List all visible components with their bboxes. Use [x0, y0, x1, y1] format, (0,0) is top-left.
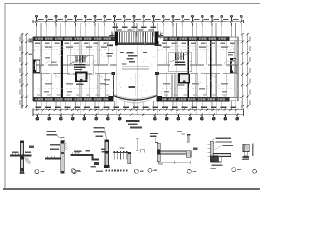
hall steps center: [122, 67, 149, 70]
bottom dimension line 2 ticks: [36, 113, 238, 115]
south exterior wall west wing with windows: [33, 97, 114, 101]
colonnade east junction label: [155, 44, 162, 46]
detail 6 text below: [211, 165, 222, 166]
west elevator shaft: [76, 73, 86, 82]
lobby northwest pier: [112, 72, 116, 75]
north exterior wall west wing with windows: [33, 37, 117, 41]
top dimension end brackets: [32, 20, 34, 23]
west stairwell: [68, 55, 94, 74]
bottom dimension line 1: [33, 109, 244, 111]
extension lines bottom: [37, 101, 242, 110]
detail 5 dim text: [159, 163, 163, 164]
west dimension texts: [19, 37, 20, 105]
detail 4 handrail text: [120, 147, 125, 148]
west niche: [34, 60, 41, 72]
detail 3 gutter step: [92, 154, 94, 161]
detail 7 label circle: [253, 169, 257, 173]
bottom axis bubbles row: [36, 115, 239, 120]
detail 4 right post: [128, 152, 131, 163]
window sill line below north wall: [33, 45, 113, 47]
detail 2 dim text: [75, 151, 81, 152]
room inner dashed lines north: [33, 49, 238, 51]
top dimension axis bubbles row: [36, 15, 243, 21]
detail 6 leader texts: [215, 138, 233, 146]
north wall east end light bay: [230, 36, 239, 38]
detail 4 label circle: [134, 169, 138, 173]
detail 2 labels: [50, 144, 60, 150]
detail 2 base: [61, 171, 65, 174]
detail 5 long slab: [160, 151, 190, 154]
page frame left border: [4, 3, 6, 189]
detail 6 label circle: [232, 168, 236, 172]
small room texts flank lobby: [104, 79, 110, 85]
east gable wall: [237, 37, 239, 101]
page frame bottom border: [3, 188, 260, 190]
detail 5 second label circle: [187, 169, 191, 173]
partition walls south rooms: [40, 73, 236, 97]
west niche dimension text: [29, 54, 34, 55]
detail 1 labels: [12, 146, 34, 153]
detail 2 parapet wall: [61, 141, 64, 171]
east stair flight treads: [171, 75, 174, 99]
colonnade west junction cross mark: [109, 35, 114, 37]
colonnade west junction label: [107, 44, 113, 46]
main cross wall at axis 14: [187, 40, 189, 97]
secondary partition verticals: [51, 40, 226, 97]
west gable wall: [32, 37, 34, 101]
entrance steps below arc: [119, 99, 152, 102]
colonnade dimension texts: [113, 27, 157, 31]
lobby center axis line: [134, 73, 136, 95]
meeting room label block center: [120, 52, 147, 65]
detail 3 eave slab: [70, 154, 91, 156]
annotation leader notes center: [94, 127, 105, 137]
lobby southeast wall pier: [157, 96, 162, 101]
detail 5 slab end box: [186, 151, 191, 157]
detail 5 label circle: [148, 168, 152, 172]
partition walls north rooms: [40, 40, 236, 65]
detail 6 slab: [213, 154, 230, 157]
detail 1 parapet section wall: [21, 141, 24, 172]
detail 6 stub below slab: [219, 157, 222, 162]
window sill texts above south wall: [37, 95, 226, 96]
main cross wall at axis 4: [61, 40, 63, 97]
main cross wall at axis 16: [210, 40, 212, 97]
detail 7 rotated dim text: [252, 143, 253, 156]
detail 5 wall: [157, 143, 160, 162]
south wall east end light bay: [230, 97, 239, 99]
colonnade east junction gap: [158, 37, 163, 40]
top dimension texts: [38, 19, 239, 20]
room labels east wing: [163, 47, 235, 93]
annotation small marks left of detail3: [61, 137, 66, 141]
east niche dimension text: [228, 52, 234, 53]
detail 4 bottom note band: [106, 169, 128, 171]
east stairwell: [169, 53, 192, 72]
detail 3 label circle: [72, 170, 76, 174]
detail 6 wall: [210, 141, 213, 162]
corridor north wall: [33, 64, 238, 66]
annotation marks right-center: [177, 131, 185, 135]
detail 4 bracket mark: [141, 149, 145, 152]
colonnade end piers: [115, 32, 118, 46]
page frame top border: [5, 3, 261, 5]
arc center mullion tick: [134, 99, 136, 101]
detail 2 label circle: [71, 169, 75, 173]
south exterior wall east wing with windows: [157, 97, 230, 101]
colonnade bottom band: [117, 43, 158, 46]
colonnade east junction cross mark: [158, 35, 164, 37]
bottom dimension line 2: [33, 114, 244, 116]
detail 5 M text: [193, 148, 197, 151]
east dimension texts: [249, 37, 250, 105]
detail 2 roof slab: [45, 158, 61, 160]
corridor south wall: [33, 72, 238, 74]
colonnade top scalloped line: [115, 31, 159, 33]
west entrance porch steps: [29, 39, 33, 43]
east elevator shaft: [179, 74, 189, 83]
column grid lines: [41, 23, 236, 115]
east niche: [231, 59, 237, 73]
detail 3 step text: [91, 166, 96, 167]
detail 4 leader lines: [105, 128, 107, 140]
lobby northeast pier: [155, 72, 159, 75]
bottom dimension texts row1: [35, 106, 236, 108]
west stair text: [76, 84, 84, 86]
north exterior wall east wing with windows: [158, 37, 230, 41]
bottom dimension end brackets: [32, 108, 34, 115]
page background: [0, 0, 260, 194]
annotation leader notes left: [47, 131, 58, 135]
corridor door swing arcs: [46, 61, 228, 77]
north entrance colonnade hatching: [117, 32, 155, 43]
detail 2 hatch: [64, 143, 67, 151]
detail 7 foot: [243, 156, 250, 159]
leader dashes to east dim column: [238, 39, 242, 41]
detail 6 dark beam corner: [210, 156, 218, 163]
detail 1 label circle: [35, 170, 39, 174]
detail 4 right dim line: [136, 138, 138, 150]
lobby west wall: [112, 73, 114, 96]
west small room label: [106, 53, 113, 57]
lobby label: [129, 86, 136, 88]
lobby curved curtain wall arc: [114, 96, 157, 100]
extension lines top: [37, 23, 242, 37]
detail 1 roof slab: [10, 155, 32, 157]
plan interior speckle texture: [34, 43, 234, 97]
detail 5 top texts: [150, 133, 158, 137]
detail 4 stair wall tall bar: [105, 140, 109, 167]
detail 1 hatch: [24, 158, 30, 164]
top dimension line: [33, 21, 244, 23]
detail 3 note text: [96, 171, 103, 172]
west niche bracket wall: [33, 60, 35, 72]
detail 3 labels: [74, 149, 106, 153]
east stair text: [178, 84, 185, 85]
detail 7 coping box: [243, 144, 249, 151]
detail 7 text below: [242, 159, 249, 160]
room inner dashed lines south: [33, 87, 238, 89]
lobby southwest wall pier: [108, 96, 113, 101]
west small room partition wall: [105, 73, 107, 97]
detail 5 dim line: [158, 161, 190, 163]
room labels west wing: [44, 47, 107, 93]
west dimension lines: [21, 33, 23, 108]
plan title text: [126, 120, 140, 122]
lobby east wall: [156, 73, 158, 96]
east niche bracket wall: [230, 59, 232, 73]
detail 1 base marks: [20, 173, 25, 175]
east dimension lines: [241, 33, 243, 108]
detail 4 handrail: [113, 151, 129, 153]
detail 7 stem: [245, 152, 248, 156]
window sill texts below north wall: [35, 43, 235, 44]
